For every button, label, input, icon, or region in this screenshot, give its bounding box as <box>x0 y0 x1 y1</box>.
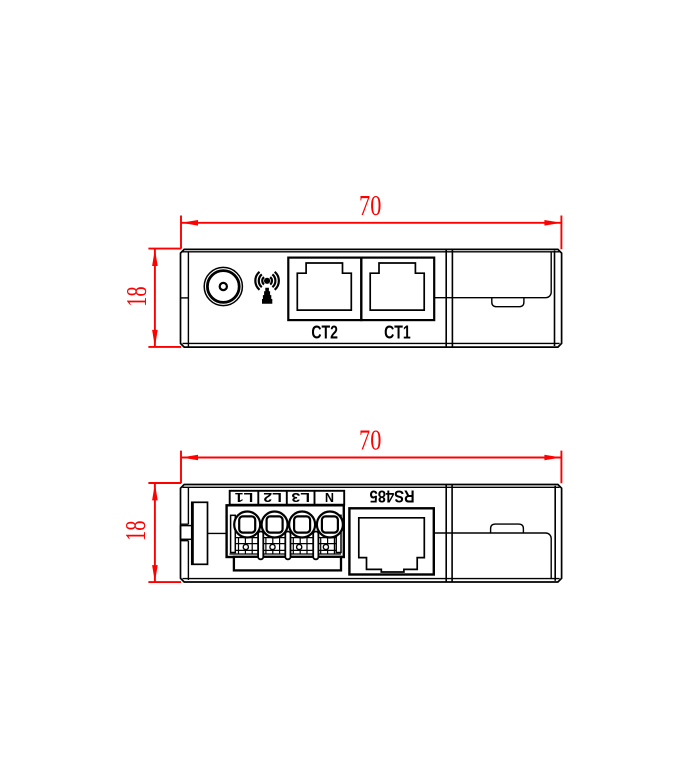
din clip opening edges <box>181 524 189 541</box>
dimension 18 bottom: extension lines <box>148 483 181 582</box>
bottom view left wall inner line lower <box>187 541 189 580</box>
dimension 70 bottom: left arrowhead <box>181 455 198 461</box>
terminal wire opening 3 <box>294 516 310 532</box>
terminal block left slot <box>231 515 236 552</box>
svg-text:70: 70 <box>359 190 381 222</box>
RJ45 jack RS485 box <box>349 508 433 574</box>
svg-text:CT2: CT2 <box>311 321 338 342</box>
top view left wall tick <box>181 297 189 299</box>
top view inner top line <box>183 251 560 253</box>
svg-text:L1: L1 <box>235 490 254 504</box>
top view inner bottom line <box>183 342 560 344</box>
release lever 2 <box>285 532 290 560</box>
bottom view clip notch <box>491 524 524 533</box>
bottom view inner bottom line <box>183 578 560 580</box>
link line clip to terminal <box>208 532 227 534</box>
bottom view left wall inner line upper <box>187 487 189 524</box>
RJ45 jack CT2 box <box>288 258 361 321</box>
bottom view divider lines <box>446 485 452 583</box>
dimension 18 bottom: bottom arrowhead <box>152 565 158 582</box>
RJ45 jack CT1 box <box>361 258 434 321</box>
dimension 70 bottom: dimension line <box>181 457 561 459</box>
svg-text:N: N <box>325 490 334 504</box>
antenna connector outer ring <box>204 267 242 305</box>
svg-text:L3: L3 <box>291 490 310 504</box>
dimension 18 top: extension lines <box>148 249 181 347</box>
terminal block outer box <box>227 505 344 557</box>
bottom view mid panel line <box>434 533 551 579</box>
dimension 70 top: extension lines <box>181 216 561 250</box>
wireless icon tower <box>262 288 272 304</box>
terminal barrel 3 <box>289 512 315 538</box>
antenna connector center pin <box>220 283 227 290</box>
terminal barrel 2 <box>262 512 288 538</box>
dimension 70 top: left arrowhead <box>181 220 198 226</box>
terminal block right slot <box>336 515 341 552</box>
dimension 70 top: dimension line <box>181 222 561 224</box>
din clip slider body <box>192 502 208 564</box>
terminal wire opening 2 <box>267 516 283 532</box>
din clip button tab <box>181 526 193 540</box>
terminal barrel 1 <box>234 512 260 538</box>
terminal clamp screws <box>243 544 248 549</box>
svg-text:70: 70 <box>359 425 381 457</box>
dimension 18 bottom: top arrowhead <box>152 483 158 500</box>
svg-text:CT1: CT1 <box>384 321 411 342</box>
dimension 18 top: bottom arrowhead <box>152 330 158 347</box>
svg-text:18: 18 <box>120 520 152 541</box>
wireless icon dot <box>264 278 270 284</box>
terminal wire opening 4 <box>322 516 338 532</box>
svg-text:RS485: RS485 <box>370 487 415 507</box>
dimension 70 bottom: right arrowhead <box>544 455 561 461</box>
bottom view body outline <box>181 485 562 583</box>
top view body outline <box>181 249 562 347</box>
dimension 70 top: right arrowhead <box>544 220 561 226</box>
release lever 1 <box>258 532 263 560</box>
release lever 3 <box>313 532 318 560</box>
wireless icon left arcs <box>255 272 264 290</box>
antenna connector main ring <box>207 271 239 303</box>
bottom view inner top line <box>183 486 560 488</box>
dimension 70 bottom: extension lines <box>181 451 561 484</box>
dimension 18 bottom: dimension line <box>154 483 156 582</box>
terminal block lower housing <box>234 557 341 571</box>
top view clip notch <box>492 298 524 307</box>
terminal wire opening 1 <box>239 516 255 532</box>
top view mid panel line <box>434 252 551 298</box>
terminal clamp comb <box>239 538 335 554</box>
svg-text:L2: L2 <box>263 490 282 504</box>
svg-text:18: 18 <box>121 286 153 307</box>
bottom view end cap line <box>554 486 556 581</box>
RJ45 jack CT1 socket profile <box>370 263 424 310</box>
top view left wall inner line <box>187 252 189 347</box>
din clip slider thick edge <box>191 502 194 564</box>
dimension 18 top: top arrowhead <box>152 249 158 266</box>
top view end cap line <box>554 251 556 347</box>
terminal label strip box <box>230 491 345 505</box>
dimension 18 top: dimension line <box>154 249 156 347</box>
terminal barrel 4 <box>317 512 343 538</box>
wireless icon right arcs <box>270 272 279 290</box>
terminal label strip dividers <box>258 491 314 505</box>
RJ45 jack CT2 socket profile <box>297 263 351 310</box>
top view divider lines <box>446 249 452 347</box>
terminal clamp grid lines <box>230 538 342 554</box>
RJ45 jack RS485 socket profile <box>359 518 425 572</box>
